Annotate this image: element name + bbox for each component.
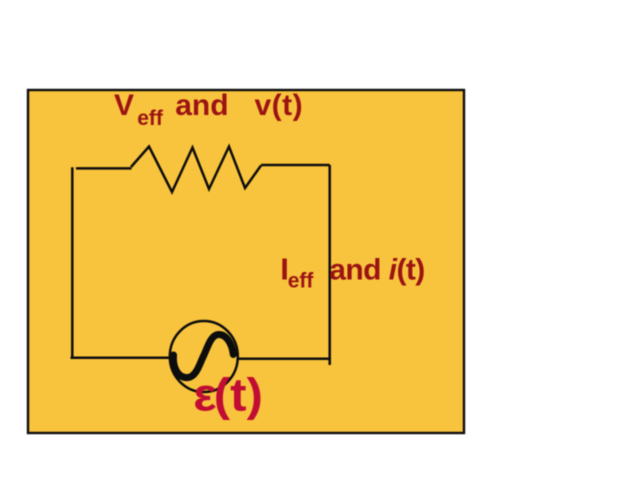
svg-text:V: V: [114, 89, 134, 122]
label Veff and v(t): [114, 89, 303, 130]
wire top-left horizontal: [76, 167, 132, 170]
wire right vertical: [328, 165, 331, 365]
svg-text:and i(t): and i(t): [329, 254, 425, 287]
wire bottom-right horizontal: [238, 358, 331, 361]
slide background panel: [28, 90, 464, 433]
svg-text:ε(t): ε(t): [193, 370, 263, 421]
label Ieff and i(t): [280, 252, 425, 293]
AC source sine symbol: [173, 334, 233, 377]
AC source V1 circle: [170, 321, 238, 392]
svg-text:v(t): v(t): [255, 89, 304, 122]
wire top-right horizontal: [261, 164, 330, 167]
svg-text:eff: eff: [137, 107, 164, 130]
svg-text:eff: eff: [288, 269, 315, 292]
wire bottom-left horizontal: [71, 357, 172, 360]
svg-text:and: and: [175, 89, 228, 122]
wire left vertical: [71, 167, 74, 357]
resistor R: [131, 147, 261, 193]
